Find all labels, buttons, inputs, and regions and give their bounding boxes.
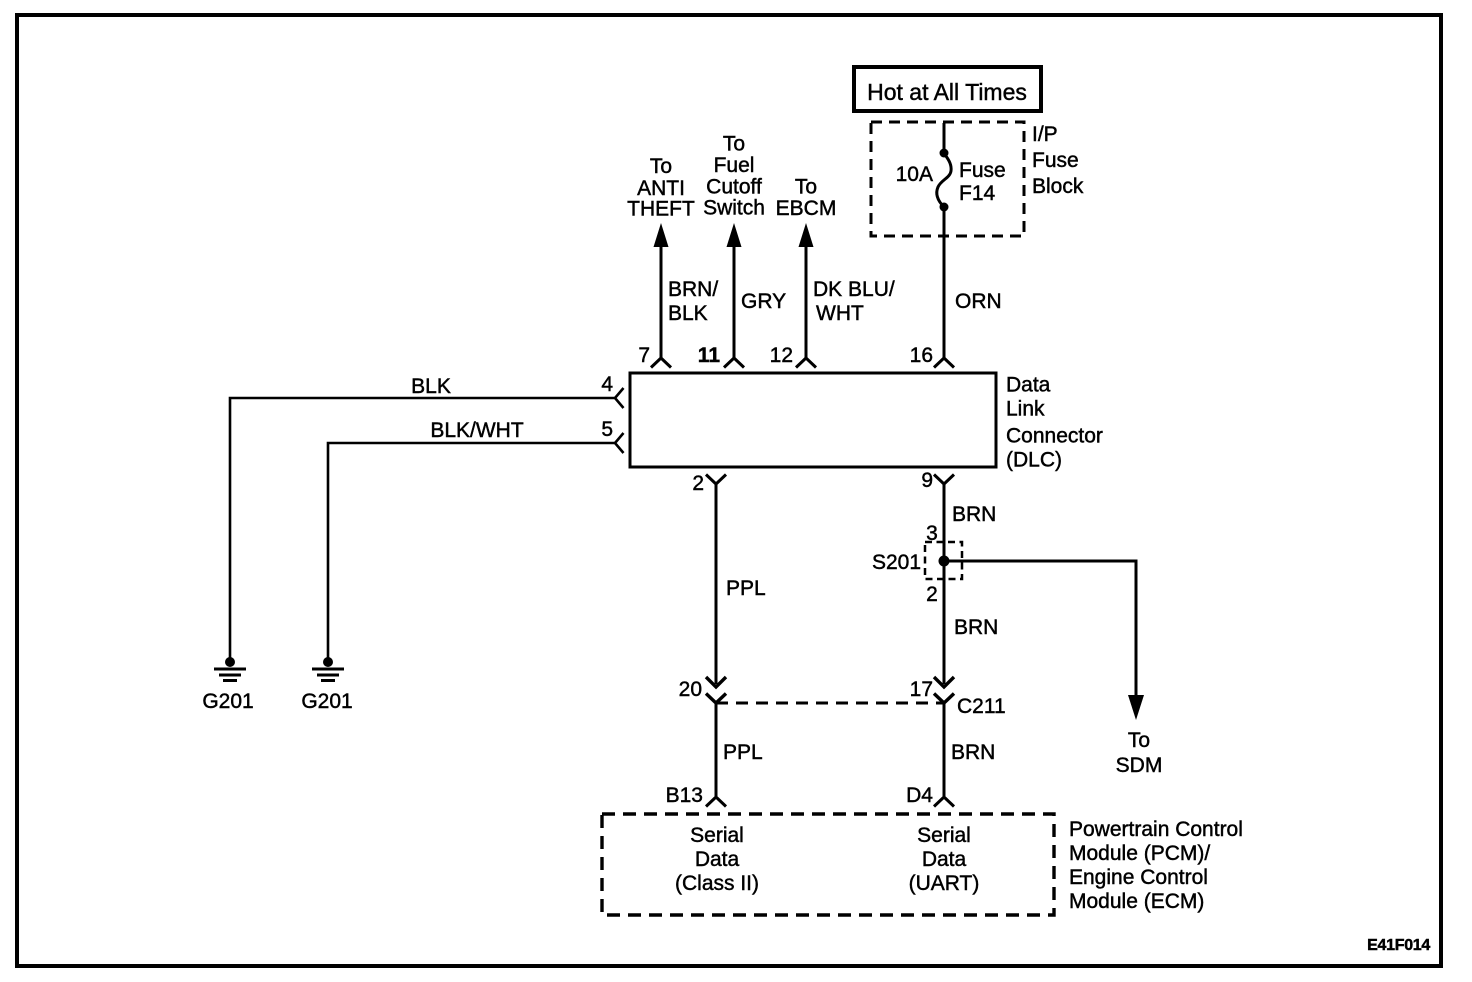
svg-text:Data: Data [695, 848, 740, 871]
ground G201 (left) [202, 657, 253, 713]
svg-text:20: 20 [679, 678, 702, 701]
pin D4 [906, 784, 954, 807]
svg-text:PPL: PPL [723, 741, 763, 764]
svg-text:BRN: BRN [951, 741, 995, 764]
label serial data class II [675, 824, 759, 895]
svg-text:Data: Data [922, 848, 967, 871]
arrow to Fuel Cutoff Switch [703, 133, 765, 359]
svg-text:BRN: BRN [954, 616, 998, 639]
svg-text:Fuse: Fuse [959, 159, 1006, 182]
svg-text:Fuel: Fuel [714, 154, 755, 177]
fuse F14 [896, 149, 1006, 212]
svg-text:Module (PCM)/: Module (PCM)/ [1069, 842, 1210, 865]
pin 16 [910, 344, 954, 368]
DLC label [1006, 374, 1103, 472]
svg-text:11: 11 [698, 344, 721, 367]
label PCM/ECM [1069, 818, 1243, 913]
svg-text:(DLC): (DLC) [1006, 449, 1062, 472]
dashed connector line C211 [716, 702, 944, 705]
arrow to SDM [1116, 695, 1163, 777]
pin 12 [770, 344, 816, 368]
svg-text:17: 17 [910, 678, 933, 701]
svg-text:Hot at All Times: Hot at All Times [867, 79, 1027, 105]
svg-text:Serial: Serial [917, 824, 971, 847]
pin B13 [666, 784, 726, 807]
wire to SDM [944, 561, 1136, 698]
svg-text:ORN: ORN [955, 290, 1002, 313]
svg-text:2: 2 [692, 472, 704, 495]
svg-text:7: 7 [638, 344, 650, 367]
pin 4 [601, 373, 623, 408]
svg-text:Powertrain Control: Powertrain Control [1069, 818, 1243, 841]
svg-text:To: To [723, 133, 745, 156]
svg-text:12: 12 [770, 344, 793, 367]
svg-text:4: 4 [601, 373, 613, 396]
wire ORN [943, 207, 946, 358]
svg-text:SDM: SDM [1116, 754, 1163, 777]
pin 2 (DLC) [692, 472, 726, 495]
DLC box [630, 373, 996, 467]
svg-text:G201: G201 [301, 690, 352, 713]
pin 11 [698, 344, 744, 368]
pin 9 (DLC) [921, 469, 954, 492]
ground G201 (right) [301, 657, 352, 713]
svg-text:Block: Block [1032, 175, 1084, 198]
svg-text:D4: D4 [906, 784, 933, 807]
svg-text:To: To [650, 155, 672, 178]
svg-text:Connector: Connector [1006, 425, 1103, 448]
svg-text:EBCM: EBCM [776, 197, 837, 220]
I/P fuse block label [1032, 123, 1084, 198]
svg-text:THEFT: THEFT [627, 198, 695, 221]
arrow to EBCM [776, 176, 837, 359]
I/P fuse block dashed box [871, 122, 1024, 236]
svg-text:Switch: Switch [703, 197, 765, 220]
svg-text:BLK: BLK [411, 375, 451, 398]
PCM/ECM dashed box [602, 814, 1054, 915]
svg-text:G201: G201 [202, 690, 253, 713]
wire BLK [230, 398, 615, 658]
hot at all times box [854, 67, 1041, 111]
svg-text:BLK/WHT: BLK/WHT [430, 419, 524, 442]
svg-text:Module (ECM): Module (ECM) [1069, 890, 1204, 913]
svg-text:To: To [1128, 729, 1150, 752]
svg-text:(Class II): (Class II) [675, 872, 759, 895]
connector C211 pin 20 [679, 677, 726, 703]
svg-text:16: 16 [910, 344, 933, 367]
wire BRN (lower) [943, 703, 946, 796]
svg-text:I/P: I/P [1032, 123, 1058, 146]
svg-text:DK BLU/: DK BLU/ [813, 278, 895, 301]
label serial data UART [909, 824, 980, 895]
svg-text:GRY: GRY [741, 290, 786, 313]
svg-text:BRN: BRN [952, 503, 996, 526]
splice S201 [872, 522, 962, 606]
svg-text:Serial: Serial [690, 824, 744, 847]
svg-text:Fuse: Fuse [1032, 149, 1079, 172]
svg-text:3: 3 [926, 522, 938, 545]
svg-text:10A: 10A [896, 163, 933, 186]
svg-text:Engine Control: Engine Control [1069, 866, 1208, 889]
svg-text:S201: S201 [872, 551, 921, 574]
arrow to ANTI THEFT [627, 155, 695, 358]
label BRN/BLK [668, 278, 718, 325]
svg-text:(UART): (UART) [909, 872, 980, 895]
svg-text:Link: Link [1006, 398, 1045, 421]
wire: fuse feed [943, 123, 946, 153]
svg-text:2: 2 [926, 583, 938, 606]
svg-text:Data: Data [1006, 374, 1051, 397]
svg-text:B13: B13 [666, 784, 703, 807]
svg-text:E41F014: E41F014 [1367, 937, 1430, 954]
connector C211 pin 17 [910, 677, 1006, 718]
pin 7 [638, 344, 671, 368]
svg-text:Cutoff: Cutoff [706, 176, 762, 199]
wire BLK/WHT [328, 443, 615, 658]
svg-text:BRN/: BRN/ [668, 278, 718, 301]
svg-text:PPL: PPL [726, 577, 766, 600]
label DK BLU/WHT [813, 278, 895, 325]
svg-text:9: 9 [921, 469, 933, 492]
svg-text:To: To [795, 176, 817, 199]
pin 5 [601, 418, 623, 453]
svg-text:C211: C211 [957, 695, 1006, 718]
svg-text:F14: F14 [959, 182, 996, 205]
svg-text:5: 5 [601, 418, 613, 441]
wire PPL (lower) [715, 703, 718, 796]
wire PPL [715, 484, 718, 684]
svg-text:WHT: WHT [816, 302, 864, 325]
wire BRN [943, 484, 946, 684]
svg-text:BLK: BLK [668, 302, 708, 325]
